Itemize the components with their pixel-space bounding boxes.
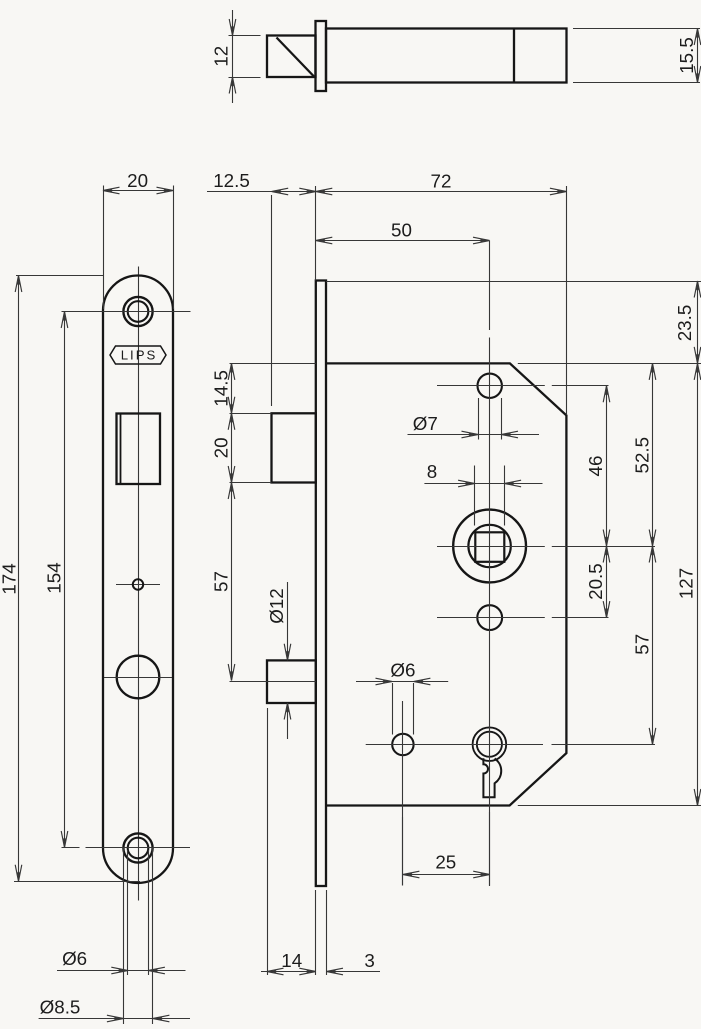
- svg-text:57: 57: [210, 571, 231, 592]
- extension line case top to left: [230, 363, 316, 365]
- fixing hole diameter 6: [392, 734, 413, 755]
- right chain dimensions 46 / 20.5: [585, 386, 610, 618]
- extension line from case top: [518, 363, 701, 365]
- svg-text:Ø8.5: Ø8.5: [40, 997, 81, 1018]
- extension lines for latch block: [230, 413, 272, 415]
- svg-text:12: 12: [210, 46, 231, 67]
- svg-text:20.5: 20.5: [585, 563, 606, 600]
- follower hub inner circle: [468, 525, 510, 567]
- right chain dimensions 52.5 / 57: [632, 363, 656, 744]
- dimension 174 (faceplate length): [0, 276, 22, 882]
- dimension 12 (latch height): [210, 10, 260, 103]
- svg-text:Ø6: Ø6: [390, 660, 415, 681]
- extension line at faceplate top: [16, 275, 103, 277]
- svg-text:20: 20: [127, 170, 148, 191]
- svg-text:8: 8: [427, 461, 437, 482]
- dimension 50 (backset): [316, 219, 490, 244]
- horizontal centerline through deadbolt block: [230, 681, 316, 683]
- extension lines from bottom screw hole: [123, 848, 125, 1024]
- keyhole ring inner: [477, 732, 502, 757]
- faceplate outline: [103, 276, 173, 884]
- lock case outline with chamfered corners: [326, 363, 566, 805]
- extension tick through deadbolt hole: [104, 677, 172, 679]
- svg-text:57: 57: [632, 634, 653, 655]
- extension line case back: [566, 186, 568, 415]
- dimension 23.5: [674, 281, 701, 363]
- dimension diameter 8.5 (countersink): [39, 997, 190, 1022]
- latch opening inner edge: [120, 414, 122, 485]
- dimension diameter 6 (screw hole): [57, 948, 186, 974]
- dimension 20 (faceplate width): [103, 170, 174, 309]
- svg-text:174: 174: [0, 563, 19, 594]
- svg-text:46: 46: [585, 456, 606, 477]
- follower hub outer circle: [453, 510, 526, 583]
- left chain dimensions 14.5 / 20 / 57: [210, 363, 235, 680]
- svg-text:LIPS: LIPS: [121, 348, 158, 363]
- bottom screw hole: [123, 833, 152, 862]
- horizontal centerline through hub: [437, 546, 545, 548]
- top view: latch bolt head: [267, 36, 316, 78]
- keyhole ring outer: [473, 727, 507, 761]
- top view: lock body side profile: [326, 29, 567, 83]
- small pin hole: [133, 579, 143, 589]
- extension tick through pin hole: [116, 584, 160, 586]
- horizontal centerline through small hole: [437, 617, 545, 619]
- top screw hole: [123, 297, 152, 326]
- svg-text:Ø12: Ø12: [266, 588, 287, 624]
- svg-text:25: 25: [435, 851, 456, 872]
- top view: faceplate cross-section bar: [316, 21, 327, 91]
- svg-text:15.5: 15.5: [676, 37, 697, 74]
- top view: latch bevel diagonal: [277, 38, 315, 77]
- top view: lock body inner edge: [513, 29, 515, 83]
- svg-text:14: 14: [281, 950, 302, 971]
- dimension 12.5 (latch protrusion) and 72 (case depth): [207, 170, 566, 195]
- keyhole stem: [483, 758, 501, 797]
- svg-text:72: 72: [431, 170, 452, 191]
- extension line at faceplate bottom: [14, 881, 140, 883]
- dimension diameter 7: [408, 398, 540, 440]
- dimension 25 (hole spacing): [403, 812, 490, 886]
- fixing hole diameter 7: [478, 374, 502, 398]
- svg-text:3: 3: [364, 950, 374, 971]
- extension line from forend top: [326, 281, 701, 283]
- forend plate side view: [316, 281, 326, 887]
- extension line latch face: [271, 195, 273, 406]
- extension line forend face: [315, 186, 317, 281]
- small hole below hub: [477, 605, 502, 630]
- faceplate vertical centerline: [138, 267, 140, 901]
- svg-text:52.5: 52.5: [632, 437, 653, 474]
- dimension 14 (deadbolt protrusion) and 3 (forend thickness): [261, 708, 380, 975]
- extension line through top screw hole: [62, 311, 191, 313]
- svg-text:154: 154: [43, 562, 64, 593]
- dimension 154 (screw hole spacing): [43, 312, 68, 848]
- dimension 127 (case height): [676, 363, 701, 805]
- svg-text:Ø6: Ø6: [62, 948, 87, 969]
- svg-text:Ø7: Ø7: [413, 413, 438, 434]
- deadbolt round hole: [117, 656, 160, 699]
- vertical centerline through holes: [489, 241, 491, 331]
- LIPS logo badge: [110, 346, 166, 364]
- extension line through bottom screw hole: [62, 847, 80, 849]
- svg-text:12.5: 12.5: [213, 170, 250, 191]
- extension line from case bottom: [518, 805, 701, 807]
- horizontal centerline through diameter-7 hole: [437, 385, 545, 387]
- dimension diameter 12 (deadbolt): [266, 582, 291, 739]
- svg-text:20: 20: [210, 437, 231, 458]
- latch opening in faceplate: [117, 414, 161, 485]
- deadbolt block: [267, 660, 316, 703]
- dimension 15.5 (body height): [573, 29, 701, 83]
- svg-text:14.5: 14.5: [210, 370, 231, 407]
- dimension 8 (spindle square): [424, 461, 542, 526]
- latch bolt block: [272, 413, 316, 482]
- svg-text:127: 127: [676, 568, 697, 599]
- vertical centerline through diameter-6 hole: [402, 701, 404, 886]
- svg-text:23.5: 23.5: [674, 305, 695, 342]
- dimension diameter 6 (case hole): [356, 660, 448, 735]
- svg-text:50: 50: [391, 219, 412, 240]
- spindle square 8mm: [475, 532, 504, 562]
- horizontal centerline through keyhole: [366, 744, 543, 746]
